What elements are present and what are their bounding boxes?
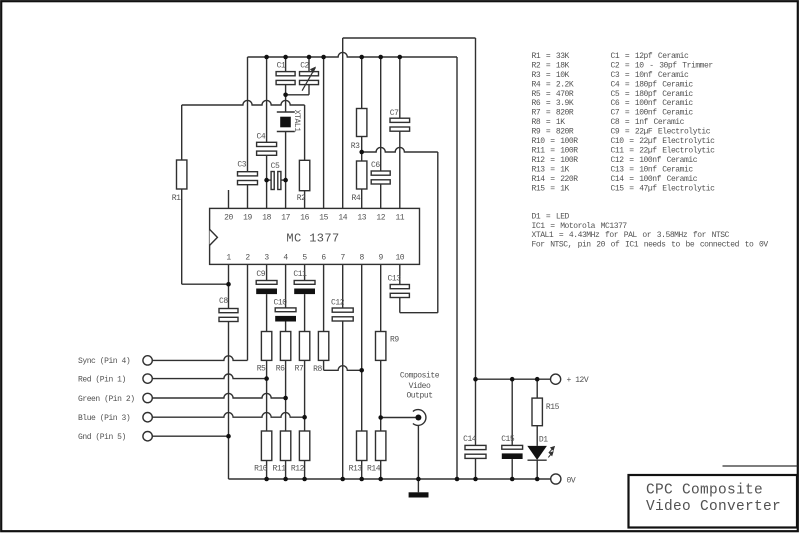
svg-text:XTAL1: XTAL1	[292, 110, 301, 132]
svg-text:18: 18	[262, 213, 271, 222]
svg-text:C6 = 100nf Ceramic: C6 = 100nf Ceramic	[611, 99, 694, 108]
svg-text:+ 12V: + 12V	[567, 376, 589, 385]
svg-text:D1: D1	[539, 435, 548, 444]
svg-text:R9 = 820R: R9 = 820R	[532, 128, 574, 137]
svg-text:Video: Video	[409, 382, 431, 391]
svg-text:10: 10	[395, 253, 404, 262]
svg-text:Red (Pin 1): Red (Pin 1)	[78, 375, 126, 384]
svg-text:C11 = 22µf Electrolytic: C11 = 22µf Electrolytic	[611, 147, 716, 156]
svg-text:R15 = 1K: R15 = 1K	[532, 184, 570, 193]
svg-text:R14: R14	[367, 464, 381, 473]
svg-text:3: 3	[264, 253, 269, 262]
svg-text:C3 = 10nf Ceramic: C3 = 10nf Ceramic	[611, 71, 690, 80]
svg-text:C13: C13	[388, 274, 402, 283]
svg-text:C4 = 180pf Ceramic: C4 = 180pf Ceramic	[611, 80, 694, 89]
svg-text:R8: R8	[313, 365, 322, 374]
svg-text:C8 = 1nf Ceramic: C8 = 1nf Ceramic	[611, 118, 685, 127]
svg-text:R4: R4	[352, 194, 361, 203]
svg-text:6: 6	[321, 253, 326, 262]
svg-text:5: 5	[302, 253, 307, 262]
svg-text:D1 = LED: D1 = LED	[532, 212, 570, 221]
svg-text:C12 = 100nf Ceramic: C12 = 100nf Ceramic	[611, 156, 698, 165]
svg-text:19: 19	[243, 213, 252, 222]
svg-text:C2 = 10 - 30pf Trimmer: C2 = 10 - 30pf Trimmer	[611, 62, 714, 71]
svg-text:R11: R11	[273, 464, 287, 473]
svg-text:7: 7	[341, 253, 346, 262]
svg-text:C11: C11	[293, 270, 307, 279]
svg-text:R6 = 3.9K: R6 = 3.9K	[532, 99, 574, 108]
svg-text:R5: R5	[257, 364, 266, 373]
svg-text:R8 = 1K: R8 = 1K	[532, 118, 566, 127]
svg-text:R1: R1	[172, 194, 181, 203]
svg-text:R13: R13	[349, 464, 363, 473]
svg-text:17: 17	[281, 213, 290, 222]
svg-text:Blue (Pin 3): Blue (Pin 3)	[78, 414, 130, 423]
svg-text:R3 = 10K: R3 = 10K	[532, 71, 570, 80]
svg-text:12: 12	[376, 213, 385, 222]
svg-text:4: 4	[283, 253, 288, 262]
svg-text:C5 = 180pf Ceramic: C5 = 180pf Ceramic	[611, 90, 694, 99]
svg-text:C15: C15	[501, 435, 515, 444]
svg-text:C13 = 10nf Ceramic: C13 = 10nf Ceramic	[611, 165, 694, 174]
svg-text:R14 = 220R: R14 = 220R	[532, 175, 579, 184]
svg-text:R11 = 100R: R11 = 100R	[532, 147, 579, 156]
svg-text:13: 13	[357, 213, 366, 222]
svg-text:MC 1377: MC 1377	[286, 232, 339, 246]
svg-text:11: 11	[395, 213, 404, 222]
svg-text:R7 = 820R: R7 = 820R	[532, 109, 574, 118]
svg-text:Gnd (Pin 5): Gnd (Pin 5)	[78, 433, 126, 442]
svg-text:For NTSC, pin 20 of IC1 needs: For NTSC, pin 20 of IC1 needs to be conn…	[532, 241, 769, 250]
svg-text:C14: C14	[463, 435, 477, 444]
svg-text:C10 = 22µf Electrolytic: C10 = 22µf Electrolytic	[611, 137, 716, 146]
svg-text:R2 = 18K: R2 = 18K	[532, 62, 570, 71]
svg-text:C12: C12	[331, 299, 345, 308]
svg-text:Video Converter: Video Converter	[646, 499, 781, 515]
svg-text:R4 = 2.2K: R4 = 2.2K	[532, 80, 574, 89]
svg-text:R7: R7	[295, 364, 304, 373]
svg-text:XTAL1 = 4.43MHz for PAL or 3.5: XTAL1 = 4.43MHz for PAL or 3.58MHz for N…	[532, 231, 730, 240]
svg-text:Composite: Composite	[400, 372, 440, 381]
svg-text:C9 = 22µF Electrolytic: C9 = 22µF Electrolytic	[611, 128, 711, 137]
svg-text:R9: R9	[390, 336, 399, 345]
svg-text:R2: R2	[297, 194, 306, 203]
svg-text:16: 16	[300, 213, 309, 222]
svg-text:R12 = 100R: R12 = 100R	[532, 156, 579, 165]
svg-text:R5 = 470R: R5 = 470R	[532, 90, 574, 99]
svg-text:C7: C7	[390, 109, 399, 118]
svg-text:C1 = 12pf Ceramic: C1 = 12pf Ceramic	[611, 52, 690, 61]
svg-text:1: 1	[226, 253, 231, 262]
svg-text:C8: C8	[219, 297, 228, 306]
svg-text:0V: 0V	[567, 476, 576, 485]
svg-text:C7 = 100nf Ceramic: C7 = 100nf Ceramic	[611, 109, 694, 118]
svg-text:C9: C9	[256, 270, 265, 279]
svg-text:IC1 = Motorola MC1377: IC1 = Motorola MC1377	[532, 222, 628, 231]
svg-text:C1: C1	[277, 61, 286, 70]
svg-text:R1 = 33K: R1 = 33K	[532, 52, 570, 61]
svg-text:R6: R6	[276, 364, 285, 373]
svg-text:8: 8	[360, 253, 365, 262]
svg-text:20: 20	[224, 213, 233, 222]
svg-text:R13 = 1K: R13 = 1K	[532, 165, 570, 174]
svg-text:Sync (Pin 4): Sync (Pin 4)	[78, 357, 130, 366]
svg-text:C15 = 47µf Electrolytic: C15 = 47µf Electrolytic	[611, 184, 716, 193]
svg-text:9: 9	[379, 253, 384, 262]
svg-text:15: 15	[319, 213, 328, 222]
svg-text:C5: C5	[271, 162, 280, 171]
svg-text:C14 = 100nf Ceramic: C14 = 100nf Ceramic	[611, 175, 698, 184]
svg-text:CPC Composite: CPC Composite	[646, 483, 763, 499]
svg-text:Output: Output	[406, 391, 432, 400]
svg-text:C4: C4	[257, 132, 266, 141]
svg-text:Green (Pin 2): Green (Pin 2)	[78, 395, 135, 404]
svg-text:R12: R12	[291, 464, 305, 473]
svg-text:14: 14	[338, 213, 347, 222]
svg-text:C6: C6	[371, 161, 380, 170]
svg-text:R15: R15	[546, 403, 560, 412]
svg-text:C10: C10	[274, 299, 288, 308]
svg-text:R10 = 100R: R10 = 100R	[532, 137, 579, 146]
svg-text:C2: C2	[300, 61, 309, 70]
svg-text:R10: R10	[254, 464, 268, 473]
svg-text:R3: R3	[351, 142, 360, 151]
svg-text:C3: C3	[237, 161, 246, 170]
svg-text:2: 2	[245, 253, 250, 262]
